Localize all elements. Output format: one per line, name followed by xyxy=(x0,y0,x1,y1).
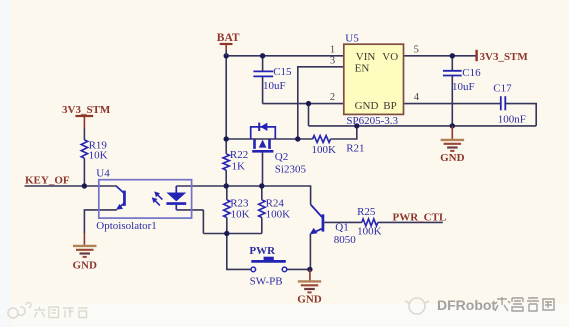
node: R21 to ground rail junction xyxy=(354,123,359,128)
svg-text:3V3_STM: 3V3_STM xyxy=(62,104,111,116)
U4 light arrow 1 xyxy=(157,194,163,200)
wire: Q2 channel row source-drain xyxy=(226,138,298,140)
wire: BAT top rail to U5 pin1 xyxy=(226,55,344,57)
node: R23 bottom junction xyxy=(224,231,229,236)
wire: R24 leads xyxy=(261,186,263,234)
svg-text:PWR: PWR xyxy=(249,245,276,257)
transistor Q2 P-MOSFET body diode loop xyxy=(251,127,276,139)
svg-text:R25: R25 xyxy=(357,206,376,218)
wire: U5 VO pin5 to 3V3_STM port xyxy=(404,55,477,57)
svg-text:1: 1 xyxy=(330,44,335,55)
wire: pin2 node riser to ground rail xyxy=(308,104,310,126)
wire: U5 GND pin2 to C15 bottom xyxy=(263,103,344,105)
svg-text:R22: R22 xyxy=(230,149,248,161)
resistor R23 xyxy=(224,200,230,218)
node: C16 / GND symbol junction xyxy=(450,123,455,128)
node: Q2 gate / R24 junction xyxy=(259,183,264,188)
wire: U5 EN pin3 to Q2 drain node xyxy=(298,67,344,139)
node: R22 bottom junction xyxy=(224,183,229,188)
svg-text:4: 4 xyxy=(414,92,420,103)
svg-text:C15: C15 xyxy=(273,66,292,78)
svg-text:GND: GND xyxy=(440,152,465,164)
Q2 body diode cathode bar xyxy=(258,123,260,131)
wire: KEY_OF row into optoisolator xyxy=(25,185,117,187)
U4 phototransistor base bar xyxy=(123,191,126,206)
svg-text:VO: VO xyxy=(382,51,398,63)
svg-text:R23: R23 xyxy=(230,197,249,209)
svg-text:EN: EN xyxy=(355,63,370,75)
svg-text:100K: 100K xyxy=(312,144,337,156)
svg-text:C17: C17 xyxy=(493,83,512,95)
wire: switch right contact to emitter/GND node xyxy=(287,268,310,270)
node: Q2 drain / EN / R21 junction xyxy=(295,136,300,141)
transistor Q1 NPN base bar xyxy=(322,214,325,231)
svg-text:Q2: Q2 xyxy=(275,151,288,163)
svg-text:10K: 10K xyxy=(231,209,250,221)
Q1 emitter arrow head xyxy=(310,228,318,235)
watermark bottom-left logo xyxy=(8,303,31,319)
watermark bottom-left text xyxy=(34,307,88,318)
svg-text:GND: GND xyxy=(355,100,379,112)
wire: U5 BP pin4 to C17 xyxy=(404,103,501,105)
node: R19 / KEY_OF junction xyxy=(82,183,87,188)
capacitor C16 xyxy=(443,70,462,72)
Q2 body diode triangle xyxy=(260,123,267,131)
svg-text:DFRobot: DFRobot xyxy=(437,297,496,313)
svg-text:PWR_CTL: PWR_CTL xyxy=(393,211,447,223)
svg-text:2: 2 xyxy=(330,92,335,103)
wire: R21 leads xyxy=(298,126,357,139)
svg-text:3V3_STM: 3V3_STM xyxy=(480,51,529,63)
resistor R25 xyxy=(362,219,378,226)
svg-text:R21: R21 xyxy=(346,143,364,155)
wire: C16 stems xyxy=(451,56,453,126)
svg-text:10uF: 10uF xyxy=(452,81,475,93)
svg-text:Si2305: Si2305 xyxy=(275,163,307,175)
Q1 emitter diagonal xyxy=(313,229,322,233)
wire: opto collector output row to Q1 collector drop xyxy=(176,186,310,205)
wire: Q1 emitter column down xyxy=(309,234,311,269)
svg-text:SW-PB: SW-PB xyxy=(250,275,283,287)
node: 3V3 junction on pin5 wire xyxy=(450,53,455,58)
Q1 collector diagonal xyxy=(311,205,323,218)
resistor R22 xyxy=(223,154,229,170)
Q2 drain contact stub xyxy=(268,139,271,149)
wire: R19 bottom lead xyxy=(83,158,85,186)
power port 3V3_STM (right) xyxy=(475,50,477,61)
svg-text:GND: GND xyxy=(297,293,322,305)
svg-text:100K: 100K xyxy=(266,209,291,221)
wire: opto emitter bottom-left pin to GND xyxy=(84,210,116,233)
U4 LED stem top xyxy=(175,186,177,193)
node: C15 junction on top rail xyxy=(260,53,265,58)
wire: BAT trunk down to Q2 source xyxy=(225,56,227,139)
wire: switch column from R23 bottom xyxy=(227,234,251,270)
svg-text:BP: BP xyxy=(383,100,396,112)
svg-text:R24: R24 xyxy=(266,197,285,209)
svg-text:Optoisolator1: Optoisolator1 xyxy=(96,220,157,232)
switch SW-PB left contact xyxy=(251,267,256,272)
svg-text:100K: 100K xyxy=(357,226,382,238)
svg-text:3: 3 xyxy=(330,56,335,67)
switch SW-PB button bump xyxy=(264,257,274,261)
U4 phototransistor collector diagonal xyxy=(116,186,124,193)
capacitor C15 xyxy=(253,70,273,72)
svg-text:VIN: VIN xyxy=(356,51,376,63)
op-amp U5 regulator SP6205 body xyxy=(344,44,404,114)
svg-text:10K: 10K xyxy=(89,149,108,161)
svg-text:SP6205-3.3: SP6205-3.3 xyxy=(346,115,398,127)
resistor R21 xyxy=(313,136,331,143)
node: pin2 GND junction xyxy=(306,101,311,106)
watermark CJK glyph blocks xyxy=(495,297,554,311)
svg-text:1K: 1K xyxy=(232,160,246,172)
wire: R23 leads xyxy=(226,186,228,234)
svg-text:U4: U4 xyxy=(96,167,110,179)
U4 phototransistor emitter diagonal xyxy=(118,203,124,208)
wire: C15 stems xyxy=(262,56,264,104)
svg-text:GND: GND xyxy=(72,259,97,271)
resistor R24 xyxy=(259,200,265,218)
ground symbol right (regulator ground) xyxy=(451,126,453,139)
wire: 3V3_STM stem to R19 xyxy=(83,129,85,140)
wire: bottom row R23/R24 to opto emitter xyxy=(176,210,261,234)
wire: Q1 base row to R25 and PWR_CTL xyxy=(324,221,443,223)
Q2 substrate arrow xyxy=(259,140,267,148)
svg-text:100nF: 100nF xyxy=(498,114,526,126)
op-amp U4 optoisolator box xyxy=(99,180,192,218)
ground symbol below optoisolator xyxy=(83,233,85,245)
node: switch / Q1 emitter GND junction xyxy=(307,267,312,272)
svg-text:BAT: BAT xyxy=(217,32,240,44)
U4 LED stem bottom xyxy=(175,205,177,210)
resistor R19 xyxy=(81,140,87,158)
U4 phototransistor emitter arrow xyxy=(116,204,123,210)
wire: C17 right to ground rail xyxy=(506,104,536,126)
node: BAT junction on top rail xyxy=(224,53,229,58)
Q2 gate plate xyxy=(252,150,273,153)
svg-text:U5: U5 xyxy=(345,32,359,44)
Q2 source contact stub xyxy=(253,139,256,149)
U4 light arrow 2 xyxy=(154,200,160,206)
svg-text:8050: 8050 xyxy=(334,234,357,246)
node: Q2 source junction xyxy=(224,136,229,141)
switch SW-PB actuator bar xyxy=(251,260,285,263)
watermark bottom-right icon xyxy=(405,298,429,314)
svg-text:KEY_OF: KEY_OF xyxy=(25,174,70,186)
U4 LED cathode bar xyxy=(166,202,186,205)
wire: ground rail horizontal xyxy=(309,125,537,127)
wire: Q2 gate stem xyxy=(262,153,264,186)
svg-text:Q1: Q1 xyxy=(335,222,348,234)
wire: R22 column leads xyxy=(225,139,227,186)
switch SW-PB right contact xyxy=(282,267,287,272)
svg-text:5: 5 xyxy=(414,44,419,55)
U4 LED triangle xyxy=(166,193,186,202)
svg-text:C16: C16 xyxy=(462,67,481,79)
capacitor C17 xyxy=(500,96,502,110)
svg-text:10uF: 10uF xyxy=(263,80,286,92)
ground symbol bottom (switch / Q1 emitter) xyxy=(309,269,311,280)
